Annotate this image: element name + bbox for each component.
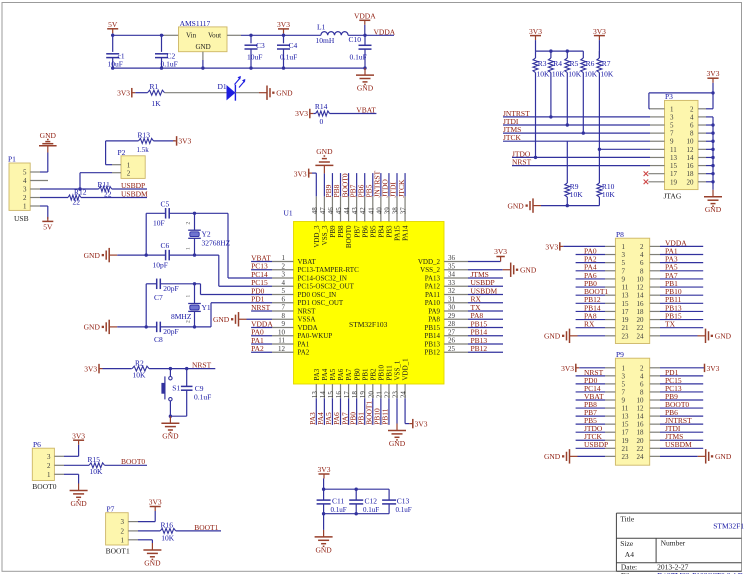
svg-text:3V3: 3V3 [294, 170, 307, 179]
wire pin37 net [404, 173, 406, 196]
wire P9.13 PB7 [576, 415, 605, 417]
svg-text:46: 46 [327, 207, 335, 215]
mcu pin 6 [272, 302, 294, 304]
svg-text:PB10: PB10 [377, 364, 385, 380]
svg-text:13: 13 [622, 292, 630, 300]
wire P8.17 PB14 [576, 310, 605, 312]
svg-text:1: 1 [23, 203, 27, 211]
svg-text:VDDA: VDDA [354, 12, 376, 21]
mcu pin 37 [404, 196, 406, 221]
power 3V3 port C11 [323, 474, 325, 479]
resistor R3 [535, 51, 537, 58]
svg-text:RX: RX [471, 295, 482, 304]
wire pin39 net [388, 173, 390, 196]
mcu pin 23 [396, 384, 398, 398]
wire P8.9 PA6 [576, 278, 605, 280]
svg-text:26: 26 [448, 337, 456, 345]
svg-text:PB13: PB13 [471, 336, 488, 345]
wire pin18 net [356, 398, 358, 425]
svg-text:16: 16 [637, 421, 645, 429]
svg-text:1: 1 [47, 471, 51, 479]
power 3V3 port pin48 [312, 172, 316, 174]
svg-text:40: 40 [375, 207, 383, 215]
ground bar pin35 [503, 269, 511, 271]
regulator U AMS1117 [179, 27, 228, 52]
mcu pin 36 [444, 261, 468, 263]
wire P9.8 PC13 [660, 391, 703, 393]
svg-text:10uF: 10uF [247, 53, 262, 62]
svg-text:22: 22 [637, 445, 645, 453]
pin P8.18 [650, 310, 660, 312]
wire pin 2 net [251, 269, 272, 271]
svg-text:41: 41 [367, 207, 375, 215]
svg-text:VBAT: VBAT [356, 105, 376, 114]
pin P8.7 [605, 270, 615, 272]
svg-text:3V3: 3V3 [707, 69, 720, 78]
svg-text:VDD_3: VDD_3 [313, 225, 321, 248]
mcu pin 13 [315, 384, 317, 398]
svg-text:P6: P6 [33, 440, 41, 449]
wire pin16 net [340, 398, 342, 425]
svg-text:8: 8 [640, 388, 644, 396]
wire P8.14 PB10 [660, 294, 703, 296]
wire C8 to PD1 column [195, 326, 212, 328]
svg-text:10K: 10K [90, 467, 104, 476]
svg-text:4: 4 [23, 177, 27, 185]
svg-text:9: 9 [282, 320, 286, 328]
svg-text:PA3: PA3 [313, 368, 321, 380]
wire P7.3 to 3V3 [138, 521, 155, 523]
wire pin40 net [380, 173, 382, 196]
svg-text:2: 2 [690, 105, 694, 113]
svg-text:VSS_3: VSS_3 [321, 225, 329, 245]
svg-text:C12: C12 [365, 497, 378, 506]
svg-text:11: 11 [278, 337, 285, 345]
svg-text:3V3: 3V3 [561, 364, 574, 373]
wire pin38 net [396, 173, 398, 196]
svg-text:PA12: PA12 [425, 283, 441, 291]
svg-text:PA10: PA10 [425, 299, 441, 307]
svg-text:2: 2 [47, 462, 51, 470]
wire P8.4 PA1 [660, 254, 703, 256]
svg-text:34: 34 [448, 271, 456, 279]
svg-text:0.1uF: 0.1uF [280, 53, 297, 62]
svg-text:19: 19 [359, 391, 367, 399]
ground bar P9 pin23 [570, 455, 578, 457]
svg-text:22: 22 [637, 324, 645, 332]
wire S1 C9 join [170, 415, 186, 417]
svg-text:5: 5 [622, 380, 626, 388]
svg-text:GND: GND [357, 84, 374, 93]
svg-text:R7: R7 [602, 59, 611, 68]
mcu pin 9 [272, 327, 294, 329]
svg-text:GND: GND [144, 558, 161, 567]
svg-text:PB7: PB7 [353, 225, 361, 238]
pin P9.10 [650, 399, 660, 401]
svg-text:3V3: 3V3 [593, 27, 606, 36]
svg-text:3V3: 3V3 [178, 137, 191, 146]
mcu pin 31 [444, 302, 468, 304]
power 3V3 port P9 pin2 [650, 367, 660, 369]
wire P9.10 PB9 [660, 399, 703, 401]
wire 3V3 to R2 [103, 368, 132, 370]
svg-text:13: 13 [622, 413, 630, 421]
power 3V3 port P3 [712, 78, 714, 83]
svg-text:15: 15 [622, 300, 630, 308]
wire pin25 net [468, 351, 503, 353]
capacitor C13 [388, 489, 390, 500]
power 3V3 port R13 [173, 140, 177, 142]
resistor R4 [550, 51, 552, 58]
mcu pin 8 [272, 318, 294, 320]
svg-text:C5: C5 [161, 199, 170, 208]
svg-text:PB14: PB14 [471, 328, 488, 337]
wire pin 9 net [251, 327, 272, 329]
svg-text:PB2: PB2 [369, 368, 377, 381]
resistor R6 [582, 51, 584, 58]
svg-text:C11: C11 [332, 497, 344, 506]
svg-text:5: 5 [282, 287, 286, 295]
svg-text:GND: GND [389, 439, 406, 448]
mcu pin 48 [315, 196, 317, 221]
ground bar VSSA pin8 [239, 318, 247, 320]
svg-text:25: 25 [448, 345, 456, 353]
svg-text:Vout: Vout [208, 32, 221, 40]
svg-text:14: 14 [637, 292, 645, 300]
svg-text:3V3: 3V3 [72, 431, 85, 440]
svg-text:PB14: PB14 [424, 332, 440, 340]
pin P9.5 [605, 383, 615, 385]
svg-text:R4: R4 [553, 59, 562, 68]
svg-text:GND: GND [715, 452, 732, 461]
svg-text:10mH: 10mH [316, 36, 335, 45]
svg-text:3: 3 [47, 453, 51, 461]
svg-text:20: 20 [637, 316, 645, 324]
pin P3.13 [650, 156, 665, 158]
wire gnd rail R9 R10 [541, 205, 599, 207]
svg-text:38: 38 [392, 207, 400, 215]
svg-text:P7: P7 [107, 505, 115, 514]
crystal Y1 [188, 303, 201, 305]
pin P8.14 [650, 294, 660, 296]
svg-text:2: 2 [640, 364, 644, 372]
wire pin20 net [372, 398, 374, 425]
wire pin21 net [380, 398, 382, 425]
resistor R5 [566, 51, 568, 58]
svg-text:1: 1 [670, 105, 674, 113]
pin P9.19 [605, 439, 615, 441]
capacitor C7 [146, 283, 156, 285]
svg-text:STM32F103: STM32F103 [349, 320, 388, 329]
pin P8.15 [605, 302, 615, 304]
wire pin28 net [468, 327, 503, 329]
wire P9.19 JTCK [576, 439, 605, 441]
svg-text:8MHZ: 8MHZ [171, 312, 192, 321]
wire P8.10 PA7 [660, 278, 703, 280]
wire top rail left [113, 34, 164, 36]
pin P8.10 [650, 278, 660, 280]
svg-text:PB1: PB1 [361, 368, 369, 381]
svg-text:PA7: PA7 [345, 368, 353, 380]
svg-text:42: 42 [359, 207, 367, 215]
svg-text:R14: R14 [315, 102, 328, 111]
mcu pin 14 [323, 384, 325, 398]
wire C11 to gnd [323, 514, 325, 530]
pin P9.21 [605, 447, 615, 449]
svg-text:U1: U1 [284, 209, 293, 218]
wire P6.2 to R15 [64, 464, 89, 466]
wire P9.20 JTMS [660, 439, 703, 441]
svg-text:AMS1117: AMS1117 [180, 19, 211, 28]
svg-text:NRST: NRST [192, 361, 212, 370]
pin P8.8 [650, 270, 660, 272]
pin P9.11 [605, 407, 615, 409]
pin AMS1117 Vin [164, 34, 179, 36]
svg-text:11: 11 [622, 284, 629, 292]
svg-text:A4: A4 [625, 550, 634, 559]
wire pin 1 net [251, 261, 272, 263]
wire R11 to USBDP [112, 188, 147, 190]
pin P9.7 [605, 391, 615, 393]
power 3V3 port R14 row [310, 113, 314, 115]
svg-text:C3: C3 [256, 41, 265, 50]
svg-text:12: 12 [687, 146, 695, 154]
mcu pin 46 [331, 196, 333, 221]
svg-text:10K: 10K [600, 70, 614, 79]
wire P8.19 PA8 [576, 319, 605, 321]
pin P8.12 [650, 286, 660, 288]
svg-text:10K: 10K [133, 371, 147, 380]
svg-text:21: 21 [622, 324, 630, 332]
wire R13 to 3V3 [154, 140, 176, 142]
wire P9.7 PC14 [576, 391, 605, 393]
pin P9.12 [650, 407, 660, 409]
wire P8.16 PB11 [660, 302, 703, 304]
svg-text:2: 2 [640, 243, 644, 251]
svg-text:PA6: PA6 [337, 368, 345, 380]
svg-text:33: 33 [448, 279, 456, 287]
svg-text:GND: GND [40, 131, 57, 140]
ground bar R9 R10 [533, 205, 541, 207]
svg-text:PB6: PB6 [361, 225, 369, 238]
svg-text:GND: GND [544, 452, 561, 461]
svg-text:PB12: PB12 [471, 344, 488, 353]
svg-text:3: 3 [121, 518, 125, 526]
wire P8 pin1 [563, 245, 605, 247]
wire P9.18 JTDI [660, 431, 703, 433]
svg-text:GND: GND [196, 43, 211, 51]
wire pin43 net [356, 173, 358, 196]
pin P9.14 [650, 415, 660, 417]
pin P8.3 [605, 254, 615, 256]
svg-text:VDD_2: VDD_2 [418, 258, 441, 266]
svg-text:17: 17 [622, 308, 630, 316]
pin P3.7 [650, 132, 665, 134]
svg-text:PB5: PB5 [369, 225, 377, 238]
svg-text:PA13: PA13 [425, 274, 441, 282]
svg-text:22: 22 [383, 391, 391, 399]
svg-text:1: 1 [622, 364, 626, 372]
resistor R7 [598, 51, 600, 58]
svg-text:PA9: PA9 [428, 307, 440, 315]
svg-text:4: 4 [282, 279, 286, 287]
wire JTCK row [503, 140, 650, 142]
svg-text:22: 22 [73, 198, 81, 207]
svg-text:PD1 OSC_OUT: PD1 OSC_OUT [298, 299, 344, 307]
wire pin13 net [315, 398, 317, 425]
svg-text:S1: S1 [172, 384, 180, 393]
pin P3.11 [650, 148, 665, 150]
svg-text:1: 1 [186, 247, 192, 250]
svg-text:35: 35 [448, 262, 456, 270]
svg-text:1K: 1K [152, 99, 162, 108]
svg-text:3: 3 [622, 372, 626, 380]
svg-text:32: 32 [448, 287, 456, 295]
ground bar C6 [110, 254, 118, 256]
svg-text:15: 15 [670, 162, 678, 170]
pin P8.19 [605, 319, 615, 321]
svg-text:1: 1 [282, 254, 286, 262]
title block frame [616, 512, 741, 514]
mcu pin 11 [272, 343, 294, 345]
svg-text:16: 16 [687, 162, 695, 170]
pin P1.5 [30, 171, 40, 173]
svg-text:2: 2 [186, 222, 192, 225]
svg-text:3V3: 3V3 [494, 247, 507, 256]
wire P1.3 to R11 [40, 188, 99, 190]
svg-text:PB4: PB4 [377, 225, 385, 238]
mcu pin 12 [272, 351, 294, 353]
svg-text:PA0-WKUP: PA0-WKUP [298, 332, 333, 340]
mcu pin 33 [444, 285, 468, 287]
power 3V3 port at C4 [283, 29, 285, 34]
svg-text:1: 1 [121, 536, 125, 544]
pin P3.19 no-connect [648, 181, 664, 183]
capacitor C4 [283, 35, 285, 43]
svg-text:3V3: 3V3 [545, 242, 558, 251]
svg-text:GND: GND [84, 323, 101, 332]
svg-text:GND: GND [544, 332, 561, 341]
mcu pin 38 [396, 196, 398, 221]
svg-text:11: 11 [622, 405, 629, 413]
svg-text:18: 18 [687, 170, 695, 178]
svg-text:USB: USB [14, 214, 29, 223]
power 5V port [112, 29, 114, 34]
svg-text:TX: TX [665, 320, 676, 329]
svg-text:PA14: PA14 [402, 225, 410, 241]
svg-text:GND: GND [276, 88, 293, 97]
svg-text:Title: Title [620, 514, 635, 523]
wire pin26 net [468, 343, 503, 345]
svg-text:16: 16 [637, 300, 645, 308]
wire R14 to VBAT label [330, 113, 377, 115]
svg-text:1: 1 [186, 295, 192, 298]
capacitor C3 [249, 34, 252, 37]
svg-text:R5: R5 [570, 59, 579, 68]
svg-text:31: 31 [448, 295, 456, 303]
wire pin 7 net [251, 310, 272, 312]
wire C7-C8 left vertical [145, 284, 147, 327]
svg-text:USBDP: USBDP [471, 278, 495, 287]
svg-text:7: 7 [282, 304, 286, 312]
mcu pin 47 [323, 196, 325, 221]
svg-text:PA15: PA15 [394, 225, 402, 241]
mcu pin 40 [380, 196, 382, 221]
svg-text:2: 2 [127, 169, 131, 177]
wire pin41 net [372, 173, 374, 196]
svg-text:PA1: PA1 [298, 340, 310, 348]
pin P3.9 [650, 140, 665, 142]
power 3V3 port P6 [78, 440, 80, 445]
mcu pin 17 [348, 384, 350, 398]
svg-text:18: 18 [637, 429, 645, 437]
pin P1.3 [30, 188, 40, 190]
ground pin23 [396, 424, 398, 431]
capacitor c1 [112, 35, 114, 52]
pin P6.1 [54, 473, 64, 475]
svg-text:GND: GND [705, 205, 722, 214]
svg-text:17: 17 [622, 429, 630, 437]
wire pin 6 net [211, 302, 272, 304]
svg-text:4: 4 [640, 251, 644, 259]
pin P3.5 [650, 124, 665, 126]
svg-text:24: 24 [637, 332, 645, 340]
mcu pin 25 [444, 351, 468, 353]
svg-text:30: 30 [448, 304, 456, 312]
mcu pin 26 [444, 343, 468, 345]
svg-text:GND: GND [520, 265, 537, 274]
svg-text:PA8: PA8 [471, 311, 484, 320]
svg-text:7: 7 [622, 267, 626, 275]
svg-text:PA8: PA8 [428, 316, 440, 324]
svg-text:9: 9 [670, 138, 674, 146]
wire pin11 row [599, 148, 650, 150]
svg-text:USBDM: USBDM [121, 189, 148, 198]
wire pin32 net [468, 294, 503, 296]
svg-text:21: 21 [622, 445, 630, 453]
pin R1 to LED [165, 92, 227, 94]
svg-text:VDD_1: VDD_1 [402, 358, 410, 381]
svg-text:3V3: 3V3 [149, 498, 162, 507]
svg-text:8: 8 [282, 312, 286, 320]
svg-text:45: 45 [335, 207, 343, 215]
svg-text:TX: TX [471, 303, 482, 312]
ground bar P8 pin24 [650, 335, 660, 337]
svg-text:7: 7 [622, 388, 626, 396]
wire P8.12 PB1 [660, 286, 703, 288]
svg-text:5: 5 [670, 122, 674, 130]
svg-text:L1: L1 [317, 23, 326, 32]
svg-text:USBDP: USBDP [584, 440, 608, 449]
svg-text:3V3: 3V3 [295, 109, 308, 118]
pin P8.5 [605, 262, 615, 264]
wire R6 to JTMS row [582, 73, 584, 134]
svg-text:29: 29 [448, 312, 456, 320]
svg-text:20: 20 [367, 391, 375, 399]
pin P8.9 [605, 278, 615, 280]
wire pin 10 net [251, 335, 272, 337]
pin P3.15 [650, 165, 665, 167]
svg-text:PB8: PB8 [337, 225, 345, 238]
svg-text:19: 19 [622, 437, 630, 445]
wire P8.22 TX [660, 327, 703, 329]
pin P9.18 [650, 431, 660, 433]
pin P7.1 [128, 539, 138, 541]
svg-text:VDDA: VDDA [374, 27, 396, 36]
svg-text:6: 6 [690, 122, 694, 130]
svg-text:PC14-OSC32_IN: PC14-OSC32_IN [298, 274, 347, 282]
svg-text:7: 7 [670, 130, 674, 138]
